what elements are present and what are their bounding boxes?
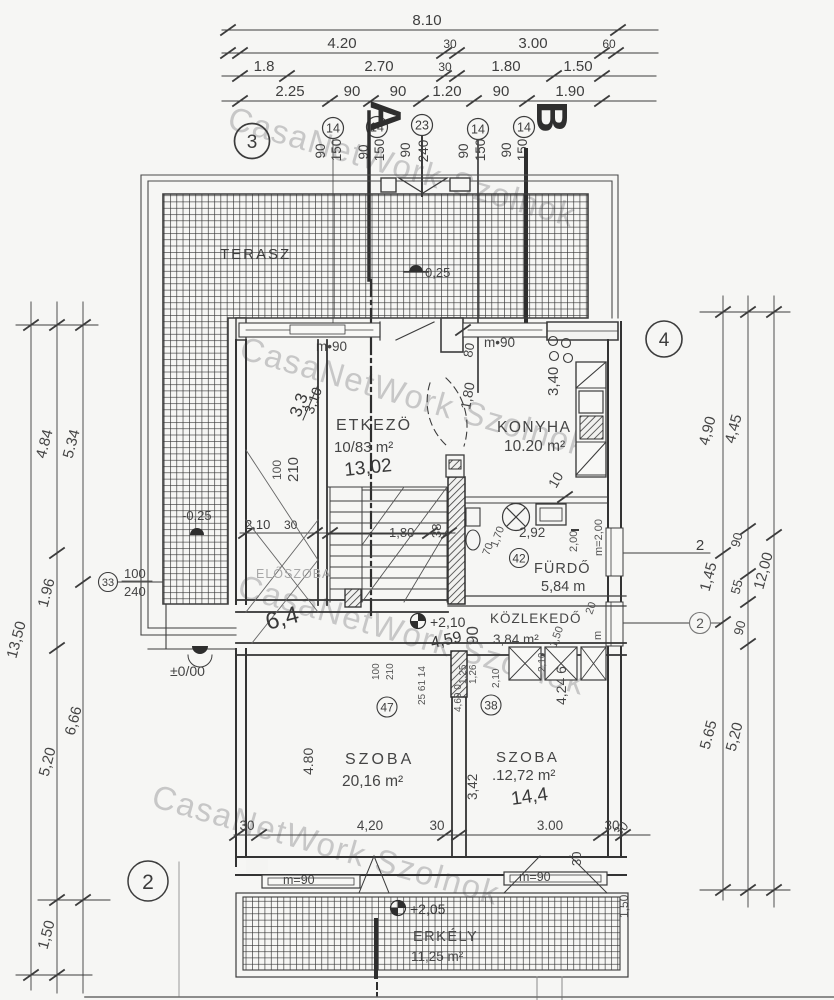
corridor / szoba top wall [236, 643, 626, 655]
svg-text:4.20: 4.20 [327, 35, 356, 52]
chimney vent V symbol [399, 178, 447, 193]
svg-text:2,10: 2,10 [245, 517, 270, 532]
leader 2 upper [624, 552, 710, 554]
circle 38 [481, 695, 501, 715]
axis circle 2 right [690, 613, 711, 634]
cabinet bottom diagonal [576, 442, 606, 475]
ticks row1 [221, 25, 235, 35]
stairs treads [327, 487, 447, 602]
dashed door arc etkezo-konyha [446, 378, 467, 446]
dim line 8.10 [222, 29, 658, 31]
svg-text:47: 47 [380, 701, 394, 715]
svg-text:90: 90 [499, 142, 514, 157]
ticks row3 [233, 71, 247, 81]
svg-text:90: 90 [456, 143, 471, 158]
svg-text:1.80: 1.80 [491, 58, 520, 75]
lower hatched pillar [451, 651, 467, 697]
axis circle 14 c [468, 119, 489, 140]
ticks row4 [233, 96, 247, 106]
svg-text:3,40: 3,40 [545, 367, 562, 396]
dim line 1.8/2.70/30/1.80/1.50 [222, 75, 656, 77]
svg-text:30: 30 [239, 818, 254, 833]
entry porch [141, 604, 236, 649]
svg-text:m•90: m•90 [484, 335, 515, 350]
level mark -0.25 terrace [409, 265, 423, 272]
svg-text:38: 38 [484, 699, 498, 713]
svg-text:30: 30 [438, 60, 452, 74]
partition eloszoba/etkezo [318, 340, 327, 605]
svg-text:210: 210 [385, 663, 396, 680]
svg-text:SZOBA: SZOBA [345, 751, 414, 768]
terrace hatch fill [163, 194, 588, 604]
top wall right segment [547, 322, 618, 340]
wardrobe row with X [509, 647, 606, 680]
leader circle2 [624, 622, 689, 624]
svg-text:2,10: 2,10 [537, 652, 548, 672]
right wall window 2 [606, 602, 623, 646]
svg-text:1.8: 1.8 [254, 58, 275, 75]
dash small [572, 529, 578, 531]
svg-text:90: 90 [493, 83, 510, 100]
svg-text:ERKÉLY: ERKÉLY [413, 928, 478, 945]
hall bottom wall [236, 600, 448, 612]
svg-text:ETKEZÖ: ETKEZÖ [336, 416, 412, 434]
svg-text:30: 30 [443, 37, 457, 51]
section A through balcony [374, 920, 378, 977]
watermark CasaNetWork Szolnok row 1 [148, 99, 592, 912]
basin [536, 504, 566, 525]
svg-text:33: 33 [102, 577, 114, 589]
left dim vline 2 [56, 302, 58, 993]
dim line 4.20/30/3.00/60 [222, 52, 658, 54]
svg-text:m•90: m•90 [316, 339, 347, 354]
tiny rotated dims cluster [371, 652, 548, 712]
sheet bottom faint line [178, 862, 180, 997]
svg-text:4,69 0: 4,69 0 [453, 684, 464, 712]
svg-text:m=90: m=90 [283, 873, 315, 887]
svg-text:80: 80 [460, 342, 477, 359]
svg-text:1,80: 1,80 [389, 525, 414, 540]
svg-text:4.80: 4.80 [300, 748, 316, 775]
svg-text:SZOBA: SZOBA [496, 749, 559, 766]
level mark +2.10 [411, 614, 426, 629]
dim texts top [254, 12, 616, 100]
svg-text:11,25 m²: 11,25 m² [411, 949, 464, 964]
sink double rect [579, 391, 603, 413]
top wall pillar between doors [441, 318, 463, 352]
balcony outline [236, 893, 628, 977]
svg-text:60: 60 [602, 37, 616, 51]
svg-text:KÖZLEKEDŐ: KÖZLEKEDŐ [490, 611, 582, 626]
axis line 23 down [421, 136, 423, 196]
svg-text:14: 14 [471, 123, 485, 137]
svg-text:ELŐSZOBA: ELŐSZOBA [256, 566, 331, 581]
svg-text:3: 3 [247, 132, 258, 153]
svg-text:2,00: 2,00 [568, 531, 580, 552]
svg-text:m: m [592, 631, 604, 640]
svg-text:150: 150 [372, 139, 387, 162]
svg-text:0,25: 0,25 [425, 265, 450, 280]
svg-text:240: 240 [124, 584, 146, 599]
circle 47 [377, 697, 397, 717]
left top crossline [16, 324, 98, 326]
dim line 2.25/90/90/1.20/90/1.90 [222, 100, 656, 102]
hob circles [549, 337, 558, 346]
svg-text:90: 90 [398, 142, 413, 157]
bottom wall left segment fill [246, 859, 268, 873]
svg-text:TERASZ: TERASZ [220, 246, 291, 263]
leader to circle 33 [118, 581, 162, 583]
svg-text:2.25: 2.25 [275, 83, 304, 100]
left outer wall [236, 340, 246, 604]
balcony hatch [243, 897, 620, 970]
axis circle 4 right [646, 321, 682, 357]
svg-text:23: 23 [415, 119, 429, 133]
svg-text:3.00: 3.00 [537, 818, 563, 833]
svg-text:.12,72 m²: .12,72 m² [492, 767, 555, 784]
post lines under balcony [536, 977, 538, 1000]
svg-text:3,42: 3,42 [465, 774, 480, 800]
svg-text:90: 90 [390, 83, 407, 100]
axis circle 3 [235, 124, 270, 159]
axis circle 2 bottom-left [128, 861, 168, 901]
bottom interior dim line [234, 834, 650, 836]
axis line 14c down [477, 140, 479, 392]
bottom wall band [236, 857, 626, 875]
door swing diagonals hall [246, 450, 318, 612]
left rotated labels [4, 428, 86, 952]
svg-text:100: 100 [270, 460, 284, 480]
left bottom tick crossline [16, 974, 92, 976]
small hatched newel [345, 589, 361, 607]
right dim vline 3 [773, 296, 775, 907]
svg-text:240: 240 [416, 140, 431, 163]
washing machine circle X [503, 504, 530, 531]
terrace door sill (m=90) [239, 323, 380, 337]
svg-text:2,10: 2,10 [491, 668, 502, 688]
partition between szoba rooms [452, 655, 466, 857]
svg-text:2,92: 2,92 [519, 525, 545, 540]
right top crossline [700, 311, 790, 313]
svg-text:100: 100 [371, 663, 382, 680]
kitchen door sill (m=90) [463, 323, 547, 337]
chimney box 1 top [381, 178, 396, 192]
pillar above chimney [446, 455, 464, 477]
svg-text:B: B [527, 101, 576, 133]
left dim vline 3 [82, 302, 84, 993]
right dim vline 2 [747, 296, 749, 907]
kitchen cabinet column [576, 362, 606, 477]
svg-text:KONYHA: KONYHA [497, 419, 571, 436]
right outer wall [608, 322, 621, 857]
svg-text:20,16 m²: 20,16 m² [342, 773, 403, 790]
svg-text:8.10: 8.10 [412, 12, 441, 29]
stair direction diagonals [362, 487, 447, 602]
window 1 swing triangle [359, 856, 389, 893]
svg-text:30: 30 [429, 818, 444, 833]
svg-text:90: 90 [313, 143, 328, 158]
svg-text:10/83 m²: 10/83 m² [334, 439, 393, 456]
left dim vline 1 [30, 302, 32, 990]
section line A vertical [367, 112, 371, 280]
vertical opening labels 90/150 [313, 139, 530, 163]
bath top / kitchen bottom wall [464, 497, 607, 503]
svg-text:90: 90 [344, 83, 361, 100]
left outer wall lower [236, 649, 246, 866]
svg-text:25 61 14: 25 61 14 [417, 666, 428, 705]
svg-text:1,26: 1,26 [468, 664, 479, 684]
svg-text:1.50: 1.50 [563, 58, 592, 75]
10 label kitchen wall [558, 492, 572, 502]
svg-text:4,20: 4,20 [357, 818, 383, 833]
svg-text:30: 30 [569, 852, 584, 866]
axis line 14a down [332, 139, 334, 322]
svg-text:1.90: 1.90 [555, 83, 584, 100]
svg-text:3,84 m²: 3,84 m² [493, 632, 539, 647]
hatched appliance [580, 416, 603, 439]
chimney box 2 top [450, 178, 470, 191]
svg-text:FÜRDŐ: FÜRDŐ [534, 559, 591, 577]
window 2 sill [504, 872, 607, 885]
terrace outer edge inner line [148, 181, 612, 628]
cabinet top box diagonal [576, 362, 606, 388]
svg-text:1.20: 1.20 [432, 83, 461, 100]
axis circle 23 [412, 115, 433, 136]
door leaf diagonal ETKEZO [396, 322, 434, 340]
svg-text:38: 38 [429, 524, 444, 538]
svg-text:2: 2 [142, 871, 154, 894]
svg-text:10.20 m²: 10.20 m² [504, 438, 565, 455]
svg-text:2: 2 [696, 615, 704, 631]
svg-text:4: 4 [659, 330, 670, 351]
svg-text:150: 150 [329, 139, 344, 162]
right wall window 1 [606, 528, 623, 576]
top wall band left corner [236, 318, 246, 340]
svg-text:210: 210 [285, 457, 302, 482]
ticks row2 [221, 48, 235, 58]
svg-text:+2,10: +2,10 [430, 614, 466, 630]
right bottom crossline [700, 889, 790, 891]
terrace outer edge outer line [141, 175, 618, 635]
svg-text:90: 90 [463, 626, 482, 645]
axis circle 33 [99, 573, 118, 592]
wc [466, 508, 480, 526]
axis circle 14 a [323, 118, 344, 139]
svg-text:150: 150 [473, 139, 488, 162]
left mid tick crossline [38, 899, 110, 901]
right dim vline 1 [722, 296, 724, 900]
level mark +2.05 [391, 901, 406, 916]
window 2 swing [504, 856, 607, 893]
axis circle 14 d [514, 117, 535, 138]
chimney pillar hatched [448, 477, 465, 604]
svg-text:+2,05: +2,05 [410, 901, 446, 917]
svg-text:m=2,00: m=2,00 [593, 519, 605, 556]
svg-text:4,24 6: 4,24 6 [553, 666, 569, 705]
svg-text:±0/00: ±0/00 [170, 663, 205, 679]
section line B vertical [524, 150, 528, 330]
svg-text:14: 14 [326, 122, 340, 136]
axis circle 14 b [367, 117, 388, 138]
svg-text:5,84 m: 5,84 m [541, 579, 585, 595]
svg-text:2: 2 [696, 537, 704, 554]
svg-text:2.70: 2.70 [364, 58, 393, 75]
entry level mark [192, 646, 208, 654]
right rotated labels [696, 413, 777, 754]
window 1 sill [262, 875, 360, 888]
svg-text:100: 100 [124, 566, 146, 581]
svg-text:42: 42 [512, 552, 526, 566]
svg-text:-0,25: -0,25 [182, 508, 212, 523]
svg-text:3.00: 3.00 [518, 35, 547, 52]
hall dim chain 2,10/30 [240, 532, 455, 534]
bath bottom wall [448, 596, 626, 606]
